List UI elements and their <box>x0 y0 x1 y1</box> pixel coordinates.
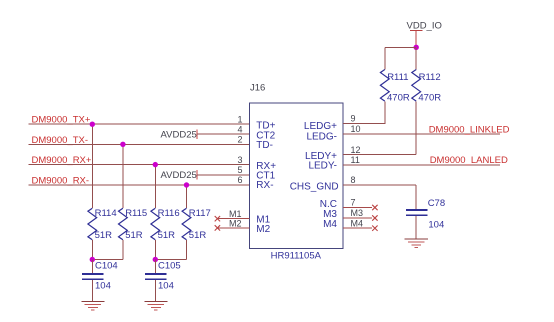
resistor R111 body <box>380 70 389 102</box>
svg-text:R112: R112 <box>419 72 441 83</box>
svg-text:8: 8 <box>351 175 356 185</box>
svg-text:104: 104 <box>428 220 444 231</box>
svg-text:M4: M4 <box>351 218 364 228</box>
capacitor C104 top lead <box>91 260 93 274</box>
capacitor C105 bottom lead <box>154 280 156 301</box>
capacitor C104 bottom lead <box>91 280 93 301</box>
svg-text:R111: R111 <box>387 72 408 83</box>
svg-text:HR911105A: HR911105A <box>271 250 322 261</box>
svg-text:AVDD25: AVDD25 <box>161 129 197 140</box>
wire DM9000_TX+ <box>29 123 250 125</box>
svg-text:6: 6 <box>237 175 242 185</box>
resistor R111 bottom lead <box>384 102 386 124</box>
svg-text:LEDG-: LEDG- <box>306 131 337 142</box>
wire DM9000_RX- <box>29 184 250 186</box>
svg-text:AVDD25: AVDD25 <box>161 170 197 181</box>
capacitor C78 top lead <box>415 185 417 209</box>
connector J16 body <box>250 103 344 249</box>
svg-text:M2: M2 <box>229 218 242 228</box>
wire AVDD25 to pin 4 <box>197 133 250 135</box>
svg-text:LEDY-: LEDY- <box>308 161 337 172</box>
svg-text:51R: 51R <box>125 230 143 241</box>
no-connect X on pin 7 <box>372 205 377 210</box>
svg-text:4: 4 <box>237 124 242 134</box>
wire DM9000_RX+ <box>29 164 250 166</box>
wire pin 8 to C78 <box>343 184 416 186</box>
wire pin M2 stub <box>217 227 249 229</box>
resistor R112 top lead <box>415 47 417 69</box>
svg-text:104: 104 <box>158 281 174 292</box>
svg-text:R115: R115 <box>125 208 147 219</box>
resistor R116 bottom lead <box>154 240 156 259</box>
no-connect X on pin M4 <box>372 226 377 231</box>
junction dot TX- / R115 <box>120 142 125 147</box>
junction dot TX+ / R114 <box>90 122 95 127</box>
svg-text:104: 104 <box>95 281 111 292</box>
junction dot C104 node <box>90 257 95 262</box>
svg-text:DM9000_LINKLED: DM9000_LINKLED <box>429 124 510 135</box>
wire AVDD25 to pin 5 <box>197 174 250 176</box>
svg-text:RX-: RX- <box>256 180 273 191</box>
wire pin M4 stub <box>343 227 372 229</box>
junction dot VDD node <box>414 45 419 50</box>
wire pin M3 stub <box>343 217 372 219</box>
power symbol VDD_IO bar <box>410 29 423 31</box>
resistor R117 top lead <box>186 185 188 208</box>
resistor R114 bottom lead <box>91 240 93 259</box>
svg-text:M4: M4 <box>323 219 337 230</box>
svg-text:C104: C104 <box>95 261 118 272</box>
svg-text:7: 7 <box>351 198 356 208</box>
resistor R112 bottom lead <box>415 102 417 155</box>
svg-text:470R: 470R <box>418 92 441 103</box>
resistor R117 body <box>182 208 191 240</box>
resistor R115 bottom lead <box>122 240 124 259</box>
svg-text:DM9000_LANLED: DM9000_LANLED <box>430 155 508 166</box>
svg-text:R116: R116 <box>158 208 180 219</box>
svg-text:51R: 51R <box>158 230 176 241</box>
ground symbol below C78 <box>405 239 428 248</box>
svg-text:M2: M2 <box>256 224 270 235</box>
wire R114/R115 bottoms to C104 <box>92 259 123 261</box>
svg-text:TD-: TD- <box>256 140 273 151</box>
resistor R111 top lead <box>384 47 386 69</box>
junction dot RX- / R117 <box>184 182 189 187</box>
svg-text:51R: 51R <box>95 230 113 241</box>
wire pin 7 stub <box>343 207 372 209</box>
svg-text:9: 9 <box>351 114 356 124</box>
wire pin 9 to R111 <box>343 123 385 125</box>
svg-text:J16: J16 <box>250 83 265 94</box>
wire pin 11 net DM9000_LANLED <box>343 164 500 166</box>
resistor R117 bottom lead <box>186 240 188 259</box>
wire pin 12 to R112 <box>343 154 416 156</box>
junction dot RX+ / R116 <box>153 162 158 167</box>
junction dot C105 node <box>153 257 158 262</box>
capacitor C104 plates <box>82 273 104 275</box>
ground symbol below C105 <box>144 301 167 310</box>
svg-text:51R: 51R <box>189 230 207 241</box>
svg-text:M3: M3 <box>351 208 364 218</box>
wire VDD node to R111 top <box>385 46 416 48</box>
resistor R112 body <box>412 70 421 102</box>
capacitor C105 plates <box>145 273 167 275</box>
ground symbol below C104 <box>81 301 104 310</box>
resistor R116 body <box>151 208 160 240</box>
svg-text:11: 11 <box>351 155 360 165</box>
wire pin 10 net DM9000_LINKLED <box>343 133 500 135</box>
svg-text:C78: C78 <box>428 198 445 209</box>
capacitor C78 bottom lead <box>415 216 417 239</box>
svg-text:C105: C105 <box>158 261 181 272</box>
svg-text:R117: R117 <box>189 208 211 219</box>
resistor R114 body <box>88 208 97 240</box>
svg-text:2: 2 <box>237 135 242 145</box>
svg-text:3: 3 <box>237 155 242 165</box>
net tick AVDD25 pin4 <box>196 130 198 139</box>
no-connect X on M2 <box>215 225 220 230</box>
no-connect X on M1 <box>215 216 220 221</box>
resistor R114 top lead <box>91 124 93 208</box>
svg-text:VDD_IO: VDD_IO <box>407 20 442 31</box>
svg-text:5: 5 <box>237 165 242 175</box>
svg-text:CHS_GND: CHS_GND <box>290 181 339 192</box>
svg-text:1: 1 <box>237 114 242 124</box>
wire DM9000_TX- <box>29 143 250 145</box>
svg-text:R114: R114 <box>95 208 117 219</box>
svg-text:10: 10 <box>351 124 361 134</box>
wire R116/R117 bottoms to C105 <box>155 259 186 261</box>
power symbol VDD_IO stem <box>415 30 417 47</box>
net tick AVDD25 pin5 <box>196 170 198 179</box>
capacitor C105 top lead <box>154 260 156 274</box>
resistor R116 top lead <box>154 165 156 209</box>
capacitor C78 plates <box>406 209 428 211</box>
svg-text:12: 12 <box>351 145 361 155</box>
no-connect X on pin M3 <box>372 215 377 220</box>
resistor R115 body <box>119 208 128 240</box>
resistor R115 top lead <box>122 144 124 208</box>
wire pin M1 stub <box>217 218 249 220</box>
svg-text:470R: 470R <box>387 92 410 103</box>
